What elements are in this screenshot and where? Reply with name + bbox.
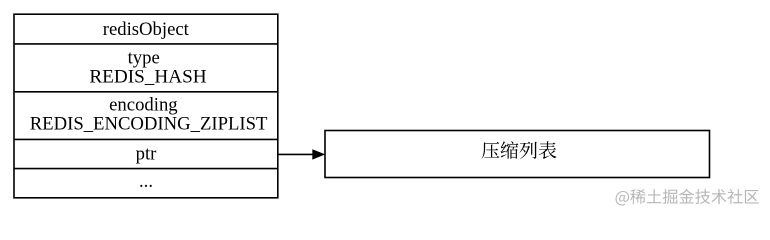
svg-text:ptr: ptr bbox=[136, 144, 158, 165]
watermark @稀土掘金技术社区 bbox=[616, 189, 759, 206]
arrowhead at ziplist box bbox=[312, 149, 325, 159]
svg-text:REDIS_ENCODING_ZIPLIST: REDIS_ENCODING_ZIPLIST bbox=[30, 114, 268, 135]
svg-text:redisObject: redisObject bbox=[103, 19, 190, 40]
svg-text:REDIS_HASH: REDIS_HASH bbox=[89, 66, 206, 87]
svg-text:type: type bbox=[128, 47, 160, 68]
svg-text:encoding: encoding bbox=[109, 95, 178, 116]
svg-text:...: ... bbox=[139, 171, 153, 192]
box ziplist bbox=[325, 131, 710, 178]
label ziplist (压缩列表) bbox=[482, 141, 557, 159]
wire ptr to ziplist bbox=[278, 153, 314, 155]
table redisObject bbox=[14, 14, 278, 198]
